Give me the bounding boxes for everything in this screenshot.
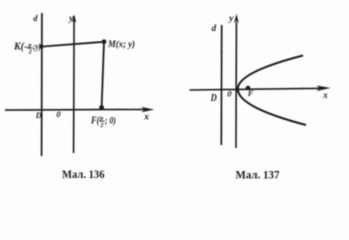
svg-text:M(x; y): M(x; y) — [107, 39, 135, 50]
svg-text:F(: F( — [90, 115, 100, 126]
svg-text:x: x — [143, 112, 149, 122]
svg-text:y: y — [228, 14, 234, 24]
svg-text:Мал. 137: Мал. 137 — [236, 170, 280, 182]
svg-text:d: d — [33, 13, 38, 23]
svg-text:0: 0 — [56, 109, 61, 119]
svg-text:2: 2 — [28, 49, 33, 56]
svg-text:d: d — [212, 23, 217, 33]
svg-text:D: D — [210, 93, 217, 104]
svg-text:F: F — [247, 88, 254, 98]
svg-text:Мал. 136: Мал. 136 — [62, 169, 105, 181]
svg-text:0: 0 — [227, 88, 232, 98]
svg-text:2: 2 — [99, 122, 104, 129]
svg-text:x: x — [322, 90, 328, 100]
svg-text:; 0): ; 0) — [105, 115, 116, 126]
svg-text:;y): ;y) — [33, 42, 41, 52]
svg-text:K(-: K(- — [13, 42, 27, 53]
svg-text:D: D — [35, 111, 42, 120]
